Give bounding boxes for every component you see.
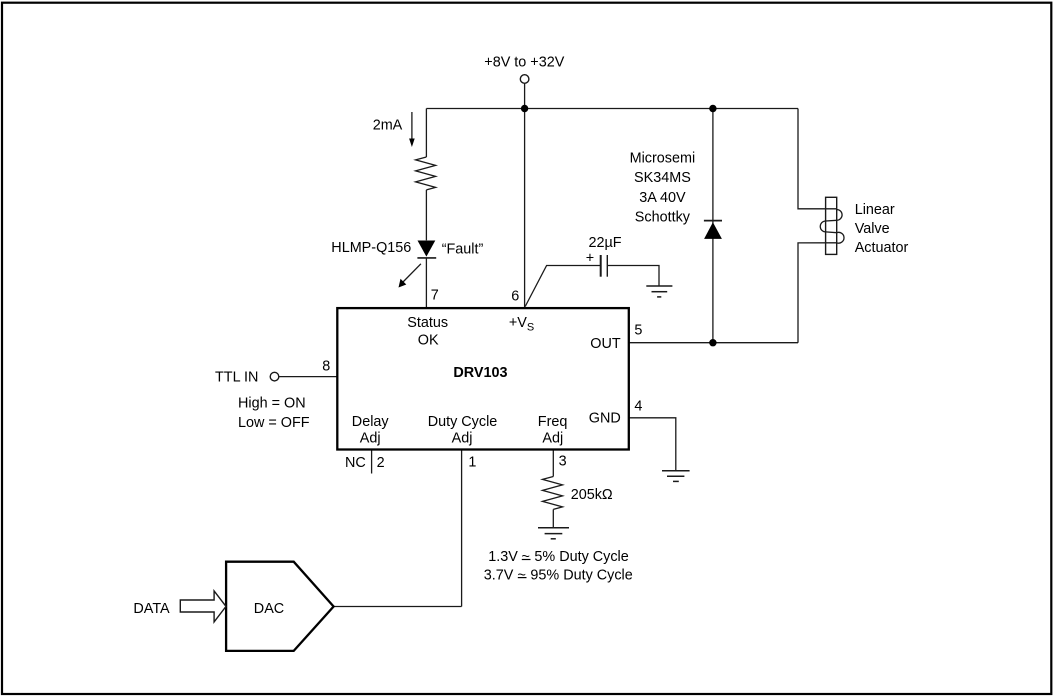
svg-text:205kΩ: 205kΩ xyxy=(571,487,613,503)
svg-text:Adj: Adj xyxy=(542,431,563,447)
svg-text:7: 7 xyxy=(431,287,439,303)
svg-text:Duty Cycle: Duty Cycle xyxy=(428,414,498,430)
svg-text:2: 2 xyxy=(377,455,385,471)
svg-text:OK: OK xyxy=(418,333,439,349)
svg-text:+8V to +32V: +8V to +32V xyxy=(484,54,564,70)
svg-text:Microsemi: Microsemi xyxy=(630,150,696,166)
svg-text:SK34MS: SK34MS xyxy=(634,170,691,186)
svg-text:DRV103: DRV103 xyxy=(453,365,507,381)
svg-text:6: 6 xyxy=(511,289,519,305)
svg-text:Delay: Delay xyxy=(352,414,390,430)
svg-text:NC: NC xyxy=(345,455,366,471)
svg-text:3A 40V: 3A 40V xyxy=(639,190,686,206)
svg-text:Schottky: Schottky xyxy=(635,210,691,226)
svg-text:GND: GND xyxy=(589,410,621,426)
svg-text:Freq: Freq xyxy=(538,414,568,430)
svg-text:1.3V ~5% Duty Cycle: 1.3V ~5% Duty Cycle xyxy=(488,549,629,565)
svg-text:OUT: OUT xyxy=(590,336,621,352)
svg-text:Linear: Linear xyxy=(855,202,895,218)
svg-text:3.7V ~95% Duty Cycle: 3.7V ~95% Duty Cycle xyxy=(484,567,633,583)
svg-text:Low = OFF: Low = OFF xyxy=(238,415,310,431)
svg-text:3: 3 xyxy=(559,453,567,469)
svg-text:Status: Status xyxy=(407,315,448,331)
svg-text:5: 5 xyxy=(634,322,642,338)
svg-text:High = ON: High = ON xyxy=(238,396,306,412)
svg-text:DAC: DAC xyxy=(254,601,284,617)
svg-text:Adj: Adj xyxy=(452,431,473,447)
svg-text:4: 4 xyxy=(634,399,642,415)
svg-text:Adj: Adj xyxy=(360,431,381,447)
svg-text:Actuator: Actuator xyxy=(855,240,909,256)
svg-text:TTL IN: TTL IN xyxy=(215,369,258,385)
svg-text:8: 8 xyxy=(322,358,330,374)
svg-text:HLMP-Q156: HLMP-Q156 xyxy=(331,240,411,256)
svg-text:2mA: 2mA xyxy=(373,117,403,133)
svg-text:Valve: Valve xyxy=(855,221,890,237)
svg-text:DATA: DATA xyxy=(133,601,170,617)
svg-text:+: + xyxy=(586,250,594,266)
svg-text:1: 1 xyxy=(468,454,476,470)
svg-text:22µF: 22µF xyxy=(588,235,621,251)
svg-text:“Fault”: “Fault” xyxy=(442,242,484,258)
